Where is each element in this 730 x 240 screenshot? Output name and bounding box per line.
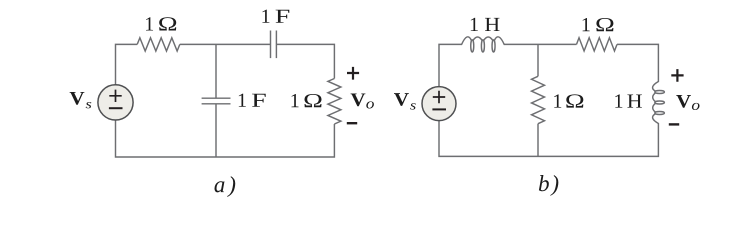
- wire: b left rail top + top-left segment: [439, 44, 462, 86]
- wire: a middle branch top: [215, 44, 217, 98]
- label 1 F (a series cap): [262, 10, 269, 23]
- wire: b top middle segment: [504, 43, 576, 45]
- wire: a top middle segment: [180, 43, 271, 45]
- voltage source Vs circle (b): [422, 87, 456, 121]
- wire: a middle branch bottom: [215, 104, 217, 157]
- wire: b right rail bottom + bottom rail + left rail bottom: [439, 121, 658, 157]
- label Vs (a): [70, 92, 85, 105]
- label 1 ohm (b middle resistor): [554, 94, 561, 107]
- label 1 H (b right inductor): [615, 94, 622, 107]
- inductor L2 1H (b, right vertical): [653, 82, 659, 124]
- label + (b output): [671, 69, 683, 82]
- inductor L1 1H (b, top): [462, 37, 505, 45]
- minus sign inside source (a): [109, 107, 123, 109]
- wire: b middle branch top: [537, 44, 539, 76]
- capacitor C1 1F (a, series, top): left plate: [270, 31, 272, 59]
- label 1 ohm (a right resistor): [292, 94, 299, 107]
- label 1 F (a shunt cap): [239, 94, 246, 107]
- label b): [539, 175, 549, 191]
- resistor R4 1ohm (b, middle vertical): [532, 76, 545, 123]
- wire: a left rail top + top-left segment: [116, 44, 138, 84]
- label Vs (b): [394, 93, 409, 106]
- resistor R2 1ohm (a, right vertical): [328, 79, 341, 125]
- label Vo (a): [351, 93, 366, 106]
- wire: a top-right segment + right rail top: [276, 44, 334, 78]
- minus sign inside source (b): [432, 108, 446, 110]
- label Vo (b): [676, 95, 691, 108]
- capacitor C2 1F (a, shunt): top plate: [202, 97, 231, 99]
- wire: b middle branch bottom: [537, 124, 539, 157]
- label minus (a output): [347, 122, 357, 124]
- label 1 ohm (a top resistor): [146, 17, 153, 30]
- capacitor C1 right plate: [275, 31, 277, 59]
- resistor R3 1ohm (b, top): [577, 38, 618, 51]
- resistor R1 1ohm (a, top): [137, 38, 180, 51]
- wire: a right rail bottom + bottom rail + left rail bottom: [116, 120, 335, 157]
- wire: b top-right segment + right rail top: [617, 44, 658, 81]
- label + (a output): [347, 67, 359, 80]
- plus sign inside source (a): [109, 90, 121, 102]
- label 1 ohm (b top resistor): [583, 18, 590, 31]
- label minus (b output): [669, 123, 679, 125]
- voltage source Vs circle (a): [98, 85, 133, 120]
- capacitor C2 bottom plate: [202, 103, 231, 105]
- plus sign inside source (b): [433, 91, 445, 103]
- label a): [215, 181, 225, 192]
- label 1 H (b top inductor): [471, 18, 478, 31]
